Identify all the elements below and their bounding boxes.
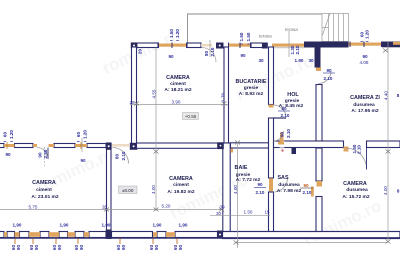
- svg-text:30: 30: [258, 58, 264, 63]
- svg-text:dusumea: dusumea: [278, 182, 300, 188]
- terrace door band 273-304: [272, 44, 304, 47]
- svg-text:1,90: 1,90: [60, 223, 69, 228]
- svg-text:4.00: 4.00: [233, 185, 238, 194]
- svg-text:CAMERA ZI: CAMERA ZI: [350, 95, 380, 101]
- svg-text:15: 15: [264, 210, 270, 215]
- svg-text:1,90: 1,90: [13, 223, 22, 228]
- svg-text:4.00: 4.00: [383, 186, 388, 195]
- svg-text:2.50: 2.50: [43, 149, 48, 158]
- svg-text:5.20: 5.20: [162, 204, 171, 209]
- window 228-251: [229, 43, 251, 49]
- svg-text:1.50: 1.50: [246, 32, 251, 41]
- svg-text:BAIE: BAIE: [235, 165, 248, 171]
- svg-text:1.20: 1.20: [9, 130, 14, 139]
- V5 baie left: [223, 143, 230, 232]
- svg-text:ciment: ciment: [173, 182, 189, 188]
- svg-text:terasa: terasa: [259, 34, 272, 39]
- window 350-382: [349, 42, 383, 48]
- H4 baie top: [231, 143, 269, 148]
- svg-text:80: 80: [204, 51, 209, 57]
- svg-text:90: 90: [362, 54, 368, 59]
- svg-text:90: 90: [34, 245, 39, 251]
- svg-text:4.00: 4.00: [151, 185, 156, 194]
- door 201-216 top: [201, 44, 212, 46]
- svg-text:gresie: gresie: [244, 85, 259, 91]
- svg-text:2.10: 2.10: [210, 47, 215, 56]
- svg-text:1.30: 1.30: [290, 45, 295, 54]
- svg-text:3.90: 3.90: [172, 100, 181, 105]
- svg-text:4.08: 4.08: [360, 60, 369, 65]
- svg-text:80: 80: [115, 154, 120, 160]
- svg-text:CAMERA: CAMERA: [343, 181, 367, 187]
- windowed part 0-222: [0, 232, 218, 238]
- svg-text:90: 90: [326, 68, 332, 73]
- svg-text:90: 90: [80, 158, 86, 163]
- svg-text:SAS: SAS: [277, 175, 288, 181]
- svg-text:2.10: 2.10: [357, 145, 362, 154]
- svg-text:60: 60: [359, 32, 364, 38]
- svg-text:1.20: 1.20: [365, 30, 370, 39]
- svg-text:A: 7.98 m2: A: 7.98 m2: [277, 188, 302, 194]
- door bucatarie-hol: [274, 105, 287, 118]
- V1 left wall of camera 18.21: [132, 47, 137, 145]
- svg-text:1.50: 1.50: [169, 29, 174, 38]
- svg-text:1,90: 1,90: [153, 223, 162, 228]
- door sas-camera leaf: [311, 187, 314, 197]
- V6 bucatarie right / baie right: [269, 47, 274, 105]
- svg-text:2.10: 2.10: [303, 190, 312, 195]
- svg-text:90: 90: [121, 245, 126, 251]
- terrace outline: [188, 14, 323, 43]
- svg-text:90: 90: [178, 245, 183, 251]
- svg-text:60: 60: [2, 132, 7, 138]
- svg-text:A: 23.01 m2: A: 23.01 m2: [31, 194, 58, 200]
- svg-text:ciment: ciment: [36, 187, 52, 193]
- svg-text:20: 20: [137, 49, 142, 55]
- door baie-sas arc: [274, 178, 288, 192]
- V3 wall left rooms: [107, 143, 112, 238]
- svg-text:90: 90: [5, 152, 11, 157]
- svg-text:90: 90: [57, 245, 62, 251]
- svg-text:80: 80: [281, 106, 287, 111]
- svg-text:A: 19.82 m2: A: 19.82 m2: [167, 189, 194, 195]
- svg-text:+0.55: +0.55: [185, 114, 197, 119]
- level boxes: [119, 113, 199, 194]
- svg-text:2.10: 2.10: [324, 76, 333, 81]
- svg-text:dusumea: dusumea: [353, 102, 375, 108]
- svg-text:1.78: 1.78: [221, 93, 226, 102]
- svg-text:1,90: 1,90: [102, 223, 111, 228]
- svg-text:1.50: 1.50: [239, 32, 244, 41]
- svg-text:1.50: 1.50: [244, 210, 253, 215]
- svg-text:2.10: 2.10: [281, 113, 290, 118]
- svg-text:A: 8.92 m2: A: 8.92 m2: [239, 91, 264, 97]
- svg-text:90: 90: [279, 132, 284, 138]
- orange dashes below wall: [15, 239, 177, 245]
- V7 hol right wall: [316, 85, 322, 142]
- tick marks (x): [104, 49, 391, 245]
- stairs: [322, 14, 349, 42]
- svg-text:CAMERA: CAMERA: [169, 176, 193, 182]
- svg-text:4.40: 4.40: [383, 91, 388, 100]
- bottom wall outer edge (thicker): [0, 237, 400, 239]
- svg-text:90: 90: [240, 53, 246, 58]
- V2 bucatarie left: [224, 47, 229, 143]
- svg-text:CAMERA: CAMERA: [32, 180, 56, 186]
- svg-text:A: 18.21 m2: A: 18.21 m2: [164, 87, 191, 93]
- svg-text:30: 30: [216, 211, 222, 216]
- svg-text:1.90: 1.90: [295, 58, 304, 63]
- solid wall with stair 304-348: [304, 42, 349, 48]
- svg-text:90: 90: [303, 183, 309, 188]
- svg-text:ciment: ciment: [170, 81, 186, 87]
- svg-text:1.20: 1.20: [175, 29, 180, 38]
- svg-text:±0.00: ±0.00: [122, 188, 134, 193]
- svg-text:90: 90: [38, 152, 43, 158]
- svg-text:4.55: 4.55: [152, 89, 157, 98]
- svg-text:8: 8: [397, 189, 400, 194]
- svg-text:90: 90: [154, 245, 159, 251]
- svg-text:8: 8: [397, 93, 400, 98]
- svg-text:1.20: 1.20: [83, 130, 88, 139]
- svg-text:dusumea: dusumea: [346, 187, 368, 193]
- svg-text:60: 60: [76, 132, 81, 138]
- svg-text:BUCATARIE: BUCATARIE: [236, 79, 267, 85]
- label ticks: [4, 41, 369, 142]
- svg-text:terasa: terasa: [285, 27, 298, 32]
- door in H2 at 37-48: [37, 148, 48, 159]
- corner blocks: [131, 43, 268, 49]
- door 112-129 into camera 19.82: [112, 144, 129, 147]
- east top wall 382-400: [382, 42, 400, 48]
- svg-text:1,90: 1,90: [179, 223, 188, 228]
- door hol top (90): [319, 71, 332, 84]
- svg-text:2.10: 2.10: [295, 45, 300, 54]
- rotated 60/90 pairs below bottom wall: [11, 245, 183, 251]
- svg-text:CAMERA: CAMERA: [166, 75, 190, 81]
- window 158-187: [158, 43, 187, 49]
- svg-text:A: 17.95 m2: A: 17.95 m2: [351, 108, 378, 114]
- svg-text:HOL: HOL: [287, 92, 299, 98]
- wall hollow 136-158: [132, 43, 263, 48]
- svg-text:30: 30: [219, 205, 225, 210]
- svg-text:2.10: 2.10: [256, 190, 265, 195]
- svg-text:2.10: 2.10: [286, 129, 291, 138]
- svg-text:5.75: 5.75: [29, 205, 38, 210]
- svg-text:A: 15.72 m2: A: 15.72 m2: [342, 194, 369, 200]
- svg-text:90: 90: [79, 245, 84, 251]
- east part of wall B + door 1.50: [367, 141, 400, 148]
- svg-text:90: 90: [16, 245, 21, 251]
- svg-text:2.10: 2.10: [121, 151, 126, 160]
- svg-text:30: 30: [308, 58, 314, 63]
- svg-text:25: 25: [102, 205, 108, 210]
- svg-text:90: 90: [168, 54, 174, 59]
- svg-text:90: 90: [257, 182, 263, 187]
- svg-text:25: 25: [129, 100, 135, 105]
